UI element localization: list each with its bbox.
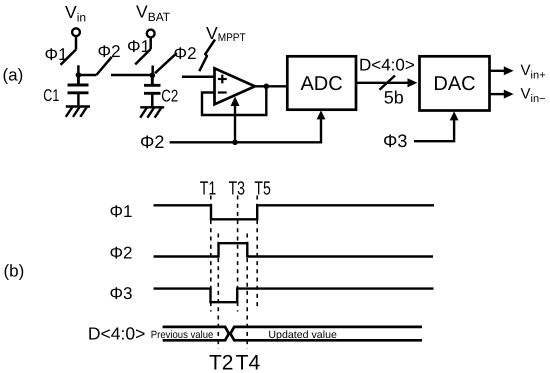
wire VBAT stem — [149, 37, 152, 49]
svg-text:Φ2: Φ2 — [140, 132, 164, 152]
svg-text:D<4:0>: D<4:0> — [88, 324, 145, 344]
svg-text:Φ2: Φ2 — [109, 244, 132, 263]
svg-text:T5: T5 — [254, 178, 271, 199]
switch Phi2 arm (branch 2) — [155, 53, 177, 73]
capacitor C1 — [68, 75, 89, 106]
dashed line T3 — [237, 196, 239, 312]
block ADC — [287, 56, 356, 109]
terminal Vin — [72, 28, 80, 36]
switch VMPPT zigzag — [199, 40, 215, 72]
svg-text:Φ1: Φ1 — [109, 202, 132, 221]
svg-text:Vin+: Vin+ — [521, 62, 546, 82]
block DAC — [420, 56, 490, 110]
waveform Phi3 — [154, 289, 434, 303]
wire to comparator + input — [182, 76, 215, 79]
svg-text:DAC: DAC — [433, 73, 475, 95]
wire Vin stem — [75, 36, 78, 50]
svg-text:(b): (b) — [4, 262, 25, 281]
capacitor C2 — [144, 75, 161, 107]
svg-text:VMPPT: VMPPT — [206, 23, 246, 44]
wire DAC output Vin- — [490, 90, 514, 99]
switch Phi1 arm (branch 2) — [135, 49, 151, 64]
svg-text:5b: 5b — [384, 87, 404, 107]
waveform Phi2 — [154, 243, 434, 256]
dashed line T1 — [210, 196, 212, 312]
node comparator output — [264, 84, 270, 90]
wire comparator output — [255, 85, 287, 87]
bus ADC to DAC with arrow — [356, 76, 417, 90]
svg-text:C2: C2 — [161, 86, 178, 105]
svg-text:Vin: Vin — [65, 2, 86, 25]
wire Phi1 contact stub (branch 2) — [151, 66, 154, 76]
svg-text:Φ2: Φ2 — [98, 42, 121, 61]
bus D<4:0> waveform — [163, 327, 422, 340]
svg-text:Φ3: Φ3 — [383, 131, 407, 151]
op-amp U1 (comparator) — [215, 68, 255, 104]
svg-text:ADC: ADC — [300, 73, 342, 95]
svg-text:Updated value: Updated value — [268, 329, 337, 341]
svg-text:VBAT: VBAT — [136, 2, 171, 25]
switch Phi1 arm (branch 1) — [61, 50, 77, 65]
dashed line T4 — [246, 234, 248, 349]
ground (below C1) — [66, 107, 90, 117]
dashed line T5 — [256, 196, 258, 311]
svg-text:D<4:0>: D<4:0> — [359, 56, 415, 75]
waveform Phi1 — [154, 205, 435, 219]
node Phi2 clock junction — [232, 140, 238, 146]
wire feedback to - input — [202, 86, 266, 115]
svg-text:Φ3: Φ3 — [109, 284, 132, 303]
wire DAC output Vin+ — [490, 66, 514, 75]
svg-text:Vin−: Vin− — [521, 86, 546, 106]
svg-text:Φ2: Φ2 — [174, 44, 197, 63]
svg-text:T1: T1 — [200, 178, 217, 199]
svg-text:T4: T4 — [236, 351, 261, 373]
wire Phi2 contact to node B — [111, 74, 152, 77]
node A (C1 top) — [76, 72, 82, 78]
svg-text:(a): (a) — [3, 66, 24, 85]
wire Phi3 to DAC — [414, 111, 459, 141]
svg-text:Φ1: Φ1 — [127, 37, 150, 56]
svg-text:Φ1: Φ1 — [45, 45, 68, 64]
svg-text:Previous value: Previous value — [151, 329, 214, 341]
wire node A to Phi2 switch — [78, 74, 96, 77]
wire comparator clock arrow — [231, 97, 240, 143]
svg-text:T2: T2 — [209, 351, 234, 373]
terminal VBAT — [147, 30, 155, 38]
svg-text:T3: T3 — [229, 178, 246, 199]
switch Phi2 arm (branch 1) — [96, 57, 111, 75]
ground (below C2) — [140, 107, 164, 117]
wire Phi1 contact stub (branch 1) — [77, 65, 80, 75]
node B (C2 top) — [150, 73, 156, 79]
dashed line T2 — [217, 234, 219, 349]
wire Phi2 clock line to ADC — [170, 110, 326, 142]
svg-text:C1: C1 — [43, 86, 59, 105]
